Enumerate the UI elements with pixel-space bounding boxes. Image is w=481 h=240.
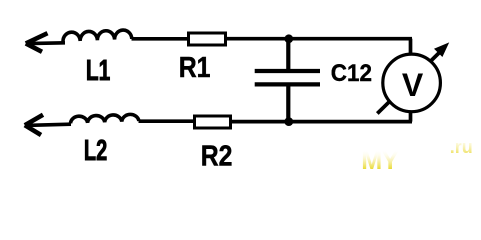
terminal arrow (bottom-left input) (25, 115, 71, 135)
svg-text:V: V (402, 67, 424, 103)
node junction (top) (284, 34, 293, 43)
svg-text:MY: MY (361, 147, 399, 175)
inductor L2 (71, 114, 139, 123)
wire (bottom rail up to voltmeter) (409, 111, 413, 122)
wire (R1 to voltmeter, top rail) (227, 37, 412, 41)
svg-text:C12: C12 (331, 60, 372, 87)
resistor R1 (189, 33, 226, 45)
node junction (bottom) (284, 117, 293, 126)
terminal arrow (top-left input) (26, 33, 65, 52)
svg-text:L1: L1 (86, 55, 111, 87)
svg-text:R1: R1 (179, 52, 211, 84)
voltmeter V1 (377, 42, 449, 113)
capacitor C12 (255, 40, 320, 122)
resistor R2 (195, 116, 231, 128)
wire (L1 to R1) (132, 37, 189, 41)
svg-text:R2: R2 (201, 141, 233, 173)
inductor L1 (63, 30, 132, 42)
svg-text:L2: L2 (84, 135, 107, 167)
wire (R2 to voltmeter, bottom rail) (231, 120, 413, 124)
svg-text:.ru: .ru (450, 137, 473, 157)
wire (top rail down to voltmeter) (409, 39, 413, 55)
wire (L2 to R2) (139, 119, 194, 123)
